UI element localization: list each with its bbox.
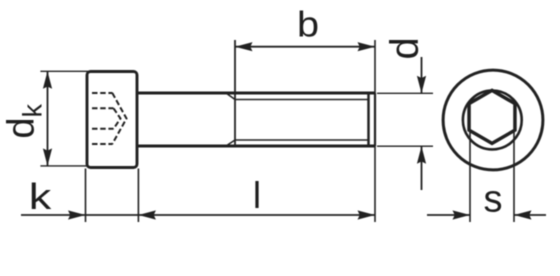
dk extension line top <box>40 70 88 72</box>
b dimension line <box>235 46 375 48</box>
socket hidden line top outer <box>92 92 113 94</box>
s dimension line left <box>427 214 470 216</box>
svg-text:d: d <box>383 37 427 59</box>
screw tip edge <box>374 93 376 146</box>
dk arrow up <box>43 71 52 89</box>
thread runout diagonal top <box>226 93 235 100</box>
s extension line left <box>469 130 471 222</box>
b arrow left <box>235 42 253 51</box>
screw head outline <box>87 72 137 168</box>
socket hidden line top inner <box>92 107 114 109</box>
k extension line left <box>85 169 87 223</box>
d extension line top <box>377 92 433 94</box>
d dimension line upper segment <box>421 57 423 93</box>
hex socket end view <box>469 90 515 143</box>
thread end chamfer line <box>367 93 370 146</box>
s arrow right-pointing <box>453 210 471 219</box>
socket hidden line bottom inner <box>92 128 114 130</box>
dk arrow down <box>43 148 52 166</box>
socket chamfer circle end view <box>463 91 522 150</box>
dk dimension line <box>47 71 49 166</box>
d arrow down <box>417 76 426 94</box>
socket cone outer chevron <box>112 93 126 144</box>
l arrow left <box>138 210 156 219</box>
s dimension line right <box>514 214 546 216</box>
thread root line top <box>235 99 369 101</box>
shank and thread major diameter bottom line <box>138 145 375 148</box>
shank and thread major diameter top line <box>138 92 375 95</box>
svg-text:k: k <box>29 176 52 217</box>
k and l extension line middle <box>137 169 139 223</box>
s extension line right <box>513 130 515 222</box>
dk extension line bottom <box>40 165 88 167</box>
b and l extension line right <box>374 40 376 222</box>
k arrow right <box>68 210 86 219</box>
thread root line bottom <box>235 139 369 141</box>
svg-text:l: l <box>253 175 261 216</box>
s arrow left-pointing <box>514 210 532 219</box>
socket hidden line bottom outer <box>92 143 113 145</box>
head outer circle end view <box>443 70 543 170</box>
b arrow right <box>358 42 376 51</box>
k and l dimension line <box>21 214 375 216</box>
l arrow right <box>358 210 376 219</box>
thread runout diagonal bottom <box>226 140 235 146</box>
svg-text:b: b <box>297 5 319 45</box>
b extension line left (through shaft) <box>234 40 236 146</box>
svg-text:dk: dk <box>1 103 48 138</box>
socket cone inner chevron <box>114 108 121 129</box>
d arrow up <box>417 146 426 164</box>
d dimension line lower segment <box>421 146 423 190</box>
svg-text:s: s <box>484 179 503 221</box>
d extension line bottom <box>377 145 433 147</box>
